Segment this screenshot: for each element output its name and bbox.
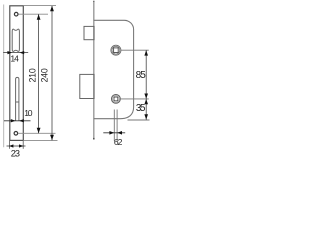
svg-text:85: 85: [136, 70, 147, 81]
svg-text:240: 240: [40, 68, 50, 82]
svg-text:23: 23: [11, 149, 20, 159]
svg-text:62: 62: [114, 137, 123, 147]
svg-text:210: 210: [27, 68, 37, 82]
